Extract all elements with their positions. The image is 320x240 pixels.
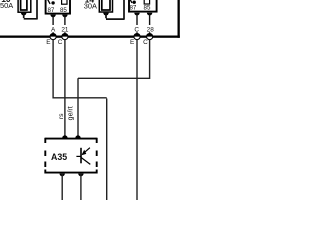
svg-text:C: C (58, 39, 63, 46)
control unit A35 dashed box (45, 138, 96, 174)
wire from connector C right: down, left, down to A35 (78, 40, 150, 139)
fuse F14 body (99, 0, 112, 12)
relay plate bottom edge (thick bus line) (0, 36, 180, 38)
svg-text:85: 85 (60, 7, 67, 14)
wire from connector E right: straight down to bottom edge (136, 40, 138, 200)
relay J1 contact dot (51, 1, 54, 4)
svg-text:30A: 30A (84, 1, 97, 10)
wire from connector C left: straight down to A35 (64, 40, 66, 139)
wire fuse F14 to bus (down, right, up to top edge) (106, 0, 124, 20)
relay J2 coil square (144, 0, 149, 4)
svg-text:C: C (143, 39, 148, 46)
relay plate right edge (178, 0, 180, 38)
relay J2 box (cut at top) (129, 0, 157, 12)
relay J1 terminal bumps (50, 15, 55, 18)
wire relay J1 pin87 down to terminal A (52, 15, 54, 25)
svg-text:87: 87 (129, 4, 136, 11)
wire 28 to bus bar (149, 32, 151, 36)
A35 input terminal bumps (on top edge) (62, 135, 67, 138)
fuse F14 terminal bump (103, 13, 109, 16)
fuse F10 body (18, 0, 31, 12)
wire A to bus bar (52, 32, 54, 36)
wire C to bus bar (136, 32, 138, 36)
connector E (left pair, pin A) (50, 34, 56, 40)
wire relay J1 pin85 down to terminal 21 (64, 15, 66, 25)
A35 switch arrowhead (82, 150, 87, 156)
svg-text:50A: 50A (0, 1, 13, 10)
wire 21 to bus bar (64, 32, 66, 36)
relay J1 box (cut at top) (46, 0, 70, 14)
svg-text:28: 28 (147, 26, 155, 33)
A35 electronic switch symbol (76, 148, 90, 165)
A35 output terminal bumps (60, 174, 65, 177)
svg-text:ge/rt: ge/rt (68, 106, 75, 120)
connector C (right pair, pin 28) (147, 34, 153, 40)
fuse F10 terminal bump (21, 13, 27, 16)
svg-text:E: E (130, 39, 134, 46)
wire relay J2 pin87 down to terminal C (136, 13, 138, 25)
svg-text:87: 87 (47, 7, 54, 14)
svg-text:A35: A35 (51, 152, 67, 162)
svg-text:E: E (46, 39, 50, 46)
wire A35 output 1 to bottom edge (61, 174, 63, 200)
wire from connector E left: down, right, down to bottom edge (52, 40, 106, 200)
wire A35 output 2 to bottom edge (80, 174, 82, 200)
relay J1 contact arm (47, 0, 50, 4)
relay J2 contact dot (133, 1, 136, 4)
relay J2 terminal bumps (134, 13, 139, 16)
svg-text:85: 85 (144, 4, 151, 11)
wire relay J2 pin85 down to terminal 28 (149, 13, 151, 25)
relay J2 contact arm (130, 0, 132, 3)
connector E (right pair, pin C) (134, 34, 140, 40)
svg-text:rs: rs (58, 113, 65, 119)
connector C (left pair, pin 21) (62, 34, 68, 40)
wire fuse F10 to bus (down, right, up to top edge) (24, 0, 37, 20)
relay J1 coil square (62, 0, 67, 4)
